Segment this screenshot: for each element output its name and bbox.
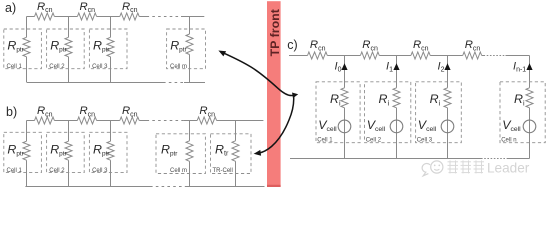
resistor R_ptr a1	[23, 37, 30, 57]
wire b top 1	[27, 120, 35, 122]
TP front red bar	[267, 1, 281, 187]
voltage source V_cell circle Cell 1	[338, 120, 351, 133]
svg-text:TP front: TP front	[268, 9, 282, 56]
svg-text:a): a)	[5, 1, 16, 15]
resistor R_cn a3	[120, 13, 139, 20]
annotation arrowhead pointing right to c)	[292, 93, 298, 99]
resistor R_cn a1	[35, 13, 55, 20]
wire b bottom 1	[25, 186, 150, 188]
svg-text:Leader: Leader	[487, 160, 530, 175]
current arrow Cell 2	[393, 63, 399, 70]
wire b top 2	[54, 120, 77, 122]
wire a cell1 branch top	[26, 17, 28, 38]
svg-text:Cell 3: Cell 3	[417, 137, 433, 143]
resistor R_tr b	[232, 141, 239, 162]
wire b top 4	[139, 120, 146, 122]
wire b cell2 branch bottom	[68, 160, 70, 186]
cell box b TR-Cell	[211, 134, 252, 174]
cell box c Cell 3	[416, 82, 462, 143]
watermark logo bubble tail	[422, 163, 430, 175]
wire c branch Cell 2 upper	[396, 56, 398, 88]
resistor R_i c Cell n	[526, 88, 533, 108]
svg-text:Cell 1: Cell 1	[7, 168, 23, 174]
wire b bottom dashed continuation	[150, 186, 185, 188]
annotation arrow a to c curve	[222, 52, 294, 96]
wire b cell1 branch bottom	[26, 160, 28, 186]
cell box b Cell m	[156, 134, 205, 174]
wire b cell3 branch top	[110, 121, 112, 142]
resistor R_i c Cell 2	[393, 88, 400, 108]
wire c top 2	[327, 55, 360, 57]
svg-text:Cell 3: Cell 3	[92, 168, 108, 174]
wire a cell2 branch bottom	[68, 57, 70, 83]
resistor R_cn c3	[411, 52, 430, 59]
wire c branch Cell 1 upper	[344, 56, 346, 88]
wire c top 3	[379, 55, 411, 57]
current arrow Cell 1	[341, 63, 347, 70]
cell box a Cell m	[167, 29, 206, 69]
cell box a Cell 3	[89, 29, 127, 69]
svg-text:Cell m: Cell m	[170, 64, 187, 70]
svg-text:c): c)	[287, 38, 297, 52]
wire a top 2	[54, 16, 77, 18]
current arrow Cell n	[526, 63, 532, 70]
cell box c Cell 2	[365, 82, 411, 143]
svg-text:Cell 2: Cell 2	[366, 137, 382, 143]
resistor R_cn b3	[120, 117, 139, 124]
wire c top 1	[289, 55, 308, 57]
wire c branch Cell 3 upper	[447, 56, 449, 88]
wire a cellm branch top	[189, 17, 191, 35]
TP front red bar bottom edge	[267, 185, 281, 187]
wire a cell1 branch bottom	[26, 57, 28, 83]
voltage source V_cell circle Cell n	[523, 120, 536, 133]
wire c top 5	[482, 55, 484, 57]
svg-text:Cell 2: Cell 2	[49, 168, 65, 174]
annotation arrowhead at b) TR-Cell	[254, 150, 262, 156]
wire b cellm branch bottom	[189, 161, 191, 186]
voltage source V_cell circle Cell 3	[441, 120, 454, 133]
wire c branch Cell n upper	[529, 56, 531, 88]
cell box b Cell 1	[4, 132, 42, 172]
resistor R_ptr b3	[107, 141, 114, 160]
wire c top dashed continuation	[484, 55, 506, 57]
wire c branch Cell n lower	[529, 108, 531, 159]
svg-text:Cell n: Cell n	[501, 137, 516, 143]
wire a top 3	[97, 16, 120, 18]
wire a top dashed continuation	[147, 16, 182, 18]
svg-text:Cell 1: Cell 1	[317, 137, 333, 143]
resistor R_ptr a cell m	[186, 34, 193, 55]
wire a cell3 branch bottom	[110, 57, 112, 83]
wire c top 6	[506, 55, 530, 57]
wire b cell2 branch top	[68, 121, 70, 142]
wire c bottom 1	[290, 158, 481, 160]
svg-text:Cell 1: Cell 1	[7, 64, 23, 70]
wire b top 6	[217, 120, 264, 122]
resistor R_cn c2	[360, 52, 379, 59]
wire b bottom 2	[185, 186, 265, 188]
resistor R_cn b4	[197, 117, 216, 124]
resistor R_cn c1	[308, 52, 328, 59]
wire a top 5	[181, 16, 204, 18]
annotation arrowhead at a) cell m	[218, 51, 226, 57]
svg-text:b): b)	[6, 105, 17, 119]
resistor R_ptr b cell m	[186, 141, 193, 162]
wire c bottom 2	[508, 158, 530, 160]
wire a bottom 2	[184, 82, 205, 84]
resistor R_ptr b2	[65, 141, 72, 160]
annotation arrow c to b curve	[259, 96, 294, 153]
resistor R_ptr a2	[65, 37, 72, 57]
wire a bottom 1	[27, 82, 163, 84]
wire c bottom dashed continuation	[481, 158, 508, 160]
cell box c Cell n	[500, 82, 545, 143]
wire c branch Cell 3 lower	[447, 108, 449, 159]
resistor R_cn c4	[463, 52, 482, 59]
wire c branch Cell 1 lower	[344, 108, 346, 159]
wire a cellm branch bottom	[189, 55, 191, 83]
resistor R_ptr a3	[107, 37, 114, 57]
watermark text 新	[448, 160, 459, 173]
wire a top 4	[139, 16, 146, 18]
cell box b Cell 2	[47, 132, 85, 172]
current arrow Cell 3	[444, 63, 450, 70]
svg-text:Cell 3: Cell 3	[92, 64, 108, 70]
wire b cellm branch top	[189, 121, 191, 141]
wire b TR branch bottom	[235, 161, 237, 186]
cell box b Cell 3	[89, 132, 127, 172]
wire b TR branch top	[235, 121, 237, 141]
watermark logo face circle	[431, 161, 443, 173]
wire b top dashed continuation	[147, 120, 185, 122]
wire a cell2 branch top	[68, 17, 70, 38]
wire b top 5	[184, 120, 197, 122]
cell box c Cell 1	[316, 82, 360, 143]
wire b cell3 branch bottom	[110, 160, 112, 186]
wire b top 3	[97, 120, 120, 122]
resistor R_ptr b1	[23, 141, 30, 160]
resistor R_i c Cell 3	[444, 88, 451, 108]
wire c branch Cell 2 lower	[396, 108, 398, 159]
wire a top 1	[27, 16, 35, 18]
watermark text 源	[474, 160, 485, 173]
svg-text:Cell 2: Cell 2	[49, 64, 65, 70]
wire c top 4	[430, 55, 463, 57]
wire a cell3 branch top	[110, 17, 112, 38]
cell box a Cell 1	[4, 29, 42, 69]
watermark logo smile	[434, 169, 439, 170]
resistor R_i c Cell 1	[341, 88, 348, 108]
voltage source V_cell circle Cell 2	[390, 120, 403, 133]
svg-text:TR-Cell: TR-Cell	[213, 168, 233, 174]
cell box a Cell 2	[47, 29, 85, 69]
resistor R_cn a2	[77, 13, 96, 20]
watermark text 能	[461, 160, 472, 173]
wire a bottom dashed continuation	[163, 82, 184, 84]
resistor R_cn b1	[35, 117, 55, 124]
svg-text:Cell m: Cell m	[170, 168, 187, 174]
wire b cell1 branch top	[26, 121, 28, 142]
watermark logo eyes	[434, 165, 436, 167]
resistor R_cn b2	[77, 117, 96, 124]
